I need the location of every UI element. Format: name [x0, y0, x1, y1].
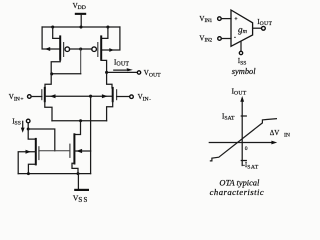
- VSS rail wire: [18, 172, 90, 175]
- nmos M2 (diff pair right): [107, 88, 117, 121]
- pmos M4 bulk wire right: [101, 27, 120, 52]
- M5 bulk wire: [18, 150, 36, 174]
- svg-text:VSS: VSS: [73, 193, 89, 203]
- mirror gate wire between bubbles: [69, 47, 92, 73]
- nmos M5 (mirror diode, bottom left): [28, 139, 39, 174]
- M6 bulk wire: [74, 149, 90, 153]
- output node wire: [105, 71, 137, 74]
- nmos M6 drain wire (tail): [74, 121, 80, 134]
- pmos M3 bulk wire left: [42, 27, 60, 51]
- ISS node wire: [27, 123, 55, 151]
- VIN2 wire: [221, 38, 231, 40]
- transfer curve: [210, 119, 277, 161]
- VOUT terminal: [137, 71, 140, 74]
- VIN2 terminal: [218, 37, 222, 41]
- output wire (symbol): [253, 27, 262, 29]
- VIN+ terminal: [28, 95, 32, 99]
- VDD rail wire: [42, 25, 120, 28]
- nmos M6 (tail current source): [70, 134, 78, 173]
- svg-text:0: 0: [245, 146, 248, 152]
- mirror gate wire: [39, 150, 70, 152]
- diff pair bulk wire: [45, 94, 113, 98]
- x axis: [209, 141, 277, 145]
- IOUT arrow: [114, 68, 133, 71]
- output terminal (symbol): [262, 26, 266, 30]
- ISS terminal (symbol): [239, 51, 242, 54]
- VSS supply symbol: [73, 174, 89, 204]
- svg-text:-: -: [234, 34, 236, 41]
- caption OTA typical characteristic: [210, 178, 265, 196]
- svg-text:characteristic: characteristic: [210, 187, 265, 197]
- VIN- gate wire: [117, 96, 130, 98]
- svg-text:+: +: [234, 17, 238, 23]
- nmos M5 drain wire (diode): [28, 130, 36, 140]
- pmos M4 (mirror output, right): [92, 28, 108, 72]
- ISS current arrow: [21, 121, 25, 133]
- nmos M1 drain hook (left diff): [45, 74, 51, 88]
- op-amp triangle U1: [231, 10, 253, 46]
- svg-text:symbol: symbol: [232, 67, 256, 76]
- -ISAT tick: [241, 160, 246, 162]
- tail source wire: [52, 119, 107, 122]
- VIN1 wire: [221, 18, 231, 20]
- nmos M1 (diff pair left): [42, 88, 52, 121]
- VIN- terminal: [130, 95, 134, 99]
- VDD supply symbol: [73, 2, 87, 27]
- y axis: [240, 96, 244, 166]
- VIN+ gate wire: [31, 96, 42, 98]
- ISS wire (symbol): [240, 42, 242, 52]
- nmos M2 drain hook (right diff): [107, 73, 112, 88]
- bulk line to VSS: [90, 96, 92, 173]
- mirror diode drain wire (node A): [50, 72, 81, 75]
- ISS terminal: [26, 119, 30, 123]
- pmos M3 (diode-connected mirror, left): [51, 28, 69, 74]
- ISAT tick: [241, 115, 246, 117]
- VIN1 terminal: [218, 17, 222, 21]
